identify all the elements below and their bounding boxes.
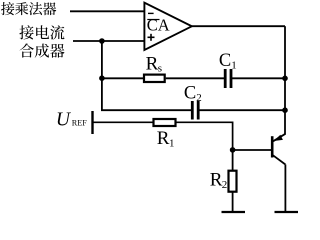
label 接电流合成器 (to current combiner) xyxy=(19,25,64,58)
wire base xyxy=(233,149,272,151)
wire R2 bottom xyxy=(232,192,234,212)
terminal U_REF xyxy=(56,109,93,134)
wire collector xyxy=(284,165,286,212)
svg-text:CA: CA xyxy=(147,16,170,35)
ground under collector xyxy=(275,211,299,213)
wire feedback left vertical xyxy=(101,41,103,110)
svg-text:REF: REF xyxy=(72,119,87,128)
transistor Q1 PNP xyxy=(272,134,285,165)
resistor Rs xyxy=(144,53,165,82)
capacitor C1 xyxy=(219,51,237,88)
wire right rail xyxy=(284,26,286,134)
wire noninverting input xyxy=(73,40,145,42)
svg-text:U: U xyxy=(56,109,72,130)
resistor R1 xyxy=(154,119,176,150)
op-amp U1 CA xyxy=(144,3,191,50)
wire Rs-C1 branch xyxy=(102,77,285,79)
node junction C2 right xyxy=(282,107,288,113)
node junction noninverting input xyxy=(99,38,105,44)
wire R2 top xyxy=(232,150,234,171)
wire inverting input xyxy=(70,10,145,12)
node junction base/R2 xyxy=(230,147,236,153)
wire U_REF to R1 xyxy=(93,121,153,123)
wire op-amp output xyxy=(192,25,285,27)
resistor R2 xyxy=(210,169,237,191)
label 接乘法器 (to multiplier) xyxy=(1,2,56,15)
wire C2 branch xyxy=(102,108,285,111)
ground under R2 xyxy=(222,211,246,213)
node junction C1 right xyxy=(282,76,288,82)
node junction Rs wire xyxy=(99,75,105,81)
wire R1 to base corner xyxy=(177,122,233,150)
capacitor C2 xyxy=(184,84,202,120)
